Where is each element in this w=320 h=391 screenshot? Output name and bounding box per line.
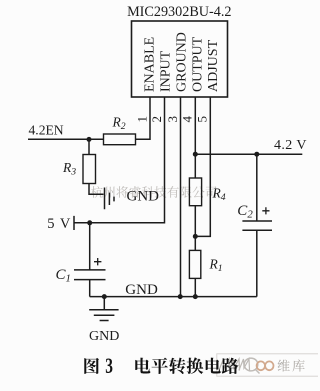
svg-text:GND: GND bbox=[89, 329, 119, 344]
svg-text:GROUND: GROUND bbox=[174, 32, 189, 92]
svg-text:ADJUST: ADJUST bbox=[206, 39, 221, 92]
svg-text:OUTPUT: OUTPUT bbox=[191, 36, 206, 92]
svg-text:4.2 V: 4.2 V bbox=[274, 138, 307, 153]
svg-text:4: 4 bbox=[180, 116, 195, 123]
svg-text:3: 3 bbox=[105, 354, 113, 378]
svg-text:2: 2 bbox=[149, 116, 164, 123]
svg-text:5 V: 5 V bbox=[47, 216, 71, 232]
svg-text:1: 1 bbox=[134, 116, 149, 123]
svg-text:ENABLE: ENABLE bbox=[143, 37, 158, 92]
svg-text:4.2EN: 4.2EN bbox=[29, 122, 64, 137]
svg-text:5: 5 bbox=[195, 116, 210, 123]
svg-text:INPUT: INPUT bbox=[158, 50, 173, 92]
svg-text:GND: GND bbox=[127, 189, 160, 205]
svg-text:3: 3 bbox=[165, 116, 180, 123]
svg-text:MIC29302BU-4.2: MIC29302BU-4.2 bbox=[127, 4, 231, 20]
svg-text:GND: GND bbox=[125, 282, 158, 298]
